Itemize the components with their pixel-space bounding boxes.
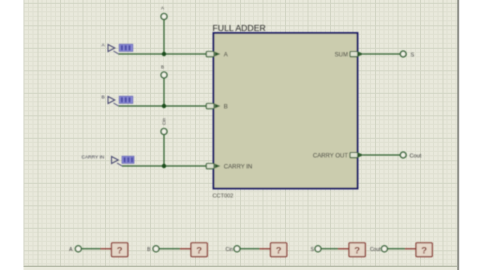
pin B (input) bbox=[206, 104, 228, 111]
junction Cin bbox=[162, 164, 166, 168]
terminal B (mid stub) bbox=[161, 65, 167, 79]
logic state B bbox=[102, 94, 133, 106]
svg-text:Cin: Cin bbox=[162, 118, 167, 125]
svg-text:?: ? bbox=[117, 245, 123, 256]
svg-text:?: ? bbox=[354, 245, 360, 256]
pin CARRY IN (input) bbox=[206, 164, 252, 171]
pin CARRY OUT (output) bbox=[313, 153, 364, 160]
terminal A (top stub) bbox=[161, 6, 167, 20]
svg-text:S: S bbox=[411, 53, 415, 59]
logic state CARRY IN bbox=[82, 155, 135, 166]
wire CARRY IN row bbox=[122, 165, 206, 167]
probe group Cin (bottom) bbox=[225, 243, 286, 257]
pin SUM (output) bbox=[335, 52, 364, 59]
wire A row bbox=[119, 53, 207, 55]
svg-text:Cout: Cout bbox=[410, 154, 422, 160]
probe group Cout (bottom) bbox=[370, 243, 432, 257]
terminal S (right) bbox=[400, 51, 414, 58]
svg-text:CARRY IN: CARRY IN bbox=[224, 164, 252, 170]
wire stub A vertical bbox=[163, 20, 165, 55]
svg-text:CCT002: CCT002 bbox=[213, 194, 234, 200]
terminal Cin (low stub) bbox=[161, 118, 167, 135]
svg-text:Cout: Cout bbox=[370, 247, 381, 253]
svg-text:?: ? bbox=[276, 245, 282, 256]
svg-text:B: B bbox=[102, 94, 105, 100]
wire stub Cin vertical bbox=[163, 135, 165, 167]
svg-text:CARRY OUT: CARRY OUT bbox=[313, 153, 348, 159]
pin A (input) bbox=[206, 52, 228, 59]
svg-text:?: ? bbox=[196, 245, 202, 256]
svg-text:FULL ADDER: FULL ADDER bbox=[213, 23, 266, 33]
junction A bbox=[162, 52, 166, 56]
svg-text:Cin: Cin bbox=[225, 247, 233, 253]
svg-text:B: B bbox=[161, 65, 164, 70]
probe group S (bottom) bbox=[311, 243, 366, 257]
terminal Cout (right) bbox=[400, 152, 421, 159]
svg-text:CARRY IN: CARRY IN bbox=[82, 155, 105, 161]
svg-text:A: A bbox=[224, 52, 228, 58]
probe group A (bottom) bbox=[69, 243, 128, 257]
junction B bbox=[162, 104, 166, 108]
wire SUM out bbox=[363, 53, 400, 55]
svg-text:?: ? bbox=[421, 245, 427, 256]
wire CARRY OUT out bbox=[363, 154, 400, 156]
logic state A bbox=[102, 42, 133, 54]
subcircuit FULL ADDER body bbox=[214, 33, 358, 189]
wire stub B vertical bbox=[163, 78, 165, 106]
probe group B (bottom) bbox=[147, 243, 207, 257]
wire B row bbox=[119, 105, 207, 107]
svg-text:SUM: SUM bbox=[335, 52, 348, 58]
svg-text:B: B bbox=[224, 104, 228, 110]
